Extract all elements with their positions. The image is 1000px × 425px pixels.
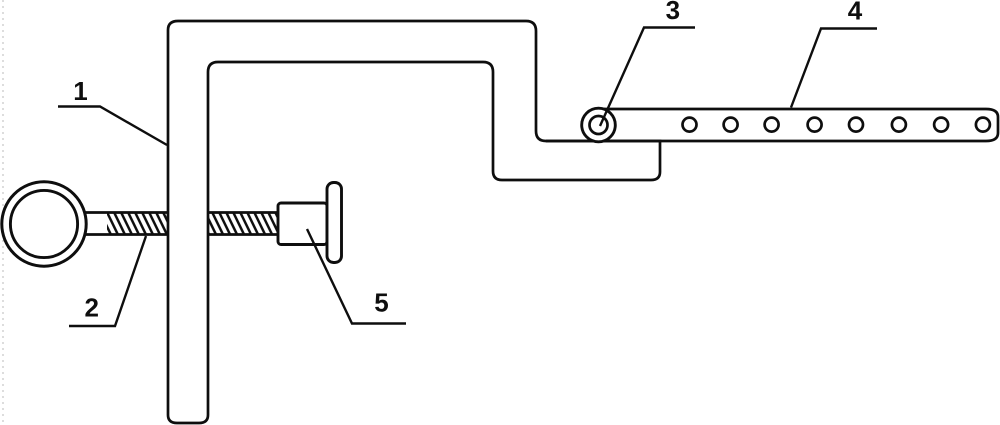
screw shaft 2 right segment outline xyxy=(209,213,278,235)
ring handle inner circle xyxy=(10,190,77,257)
pivot 3 inner circle xyxy=(590,116,608,134)
arm 4 hole 6 xyxy=(892,118,906,132)
pad 5 body xyxy=(278,203,327,245)
leader line 1 xyxy=(58,107,167,146)
screw shaft 2 left hatch xyxy=(107,214,167,234)
arm 4 hole 2 xyxy=(724,118,738,132)
svg-text:5: 5 xyxy=(374,288,388,318)
arm 4 body xyxy=(546,109,998,141)
svg-text:1: 1 xyxy=(73,76,87,106)
screw shaft 2 right hatch xyxy=(209,214,278,234)
arm 4 hole 1 xyxy=(683,118,697,132)
leader line 2 xyxy=(69,236,146,326)
pad 5 flange xyxy=(327,183,342,263)
screw shaft 2 left segment outline xyxy=(82,213,167,235)
bracket body 1 xyxy=(168,21,660,423)
leader line 5 xyxy=(307,229,406,324)
pivot 3 outer circle xyxy=(582,108,616,142)
arm 4 hole 4 xyxy=(808,118,822,132)
ring handle outer circle xyxy=(2,182,86,266)
leader line 4 xyxy=(791,29,877,108)
wire scan edge dotted line xyxy=(2,0,4,425)
svg-text:2: 2 xyxy=(84,293,98,323)
svg-text:3: 3 xyxy=(666,0,680,25)
arm 4 hole 3 xyxy=(765,118,779,132)
arm 4 hole 8 xyxy=(976,118,990,132)
svg-text:4: 4 xyxy=(848,0,863,26)
arm 4 hole 7 xyxy=(934,118,948,132)
leader line 3 xyxy=(600,28,695,127)
arm 4 hole 5 xyxy=(849,118,863,132)
